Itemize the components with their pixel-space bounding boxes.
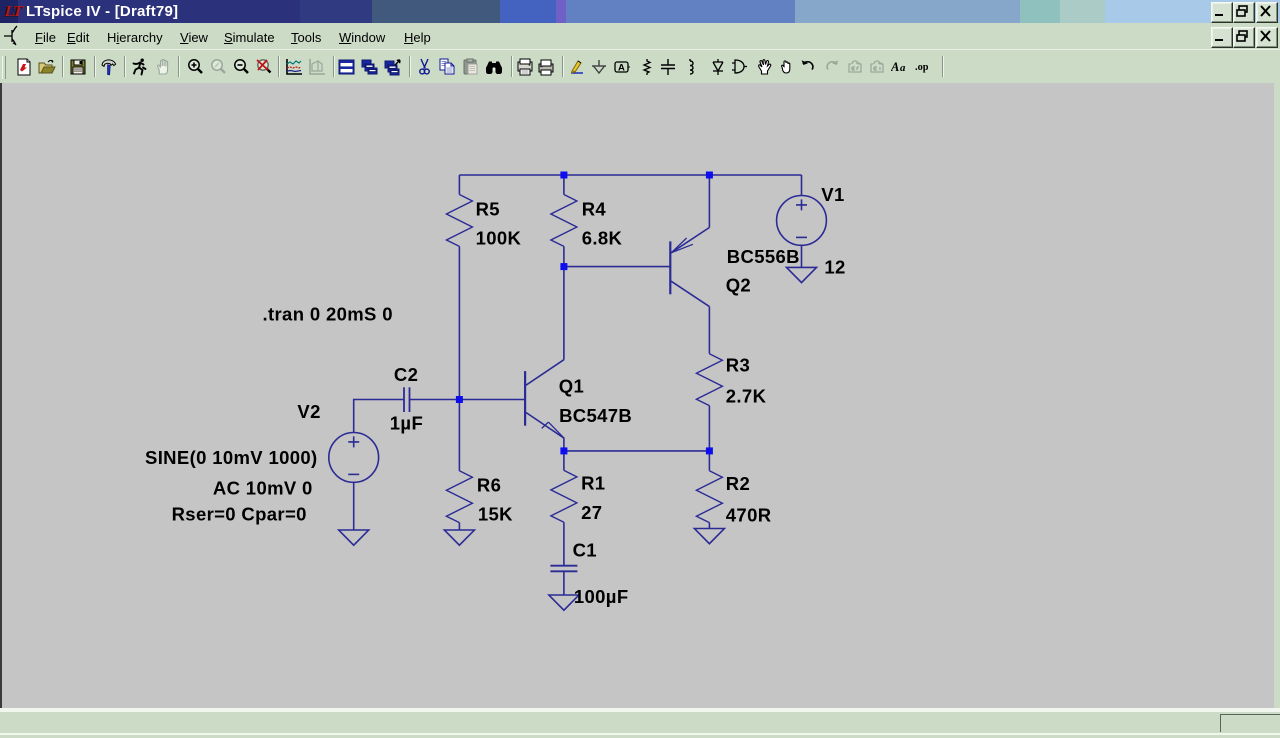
wire emitter row xyxy=(564,450,710,452)
ground below V1 xyxy=(787,267,817,282)
wire Q2 base node to Q2 base xyxy=(564,266,670,268)
svg-text:15K: 15K xyxy=(478,504,513,525)
resistor R4 xyxy=(551,195,577,247)
svg-text:.tran 0 20mS 0: .tran 0 20mS 0 xyxy=(263,304,393,325)
voltage source V2 xyxy=(329,433,379,483)
resistor R1 xyxy=(551,470,577,522)
wire V1 bottom to ground xyxy=(801,245,803,267)
resistor R3 xyxy=(696,354,722,406)
wire R2 node to R2 top xyxy=(708,451,710,471)
ground below R2 xyxy=(694,529,724,544)
wire V2 top to C2 xyxy=(354,400,404,433)
svg-text:C2: C2 xyxy=(394,364,418,385)
wire Q1 base xyxy=(459,399,524,401)
svg-text:470R: 470R xyxy=(726,505,772,526)
svg-text:6.8K: 6.8K xyxy=(582,228,623,249)
title bar xyxy=(0,0,1280,23)
wire C1 bottom to ground xyxy=(563,571,565,595)
svg-text:C1: C1 xyxy=(573,540,597,561)
svg-text:R6: R6 xyxy=(477,474,501,495)
svg-text:V1: V1 xyxy=(821,184,844,205)
svg-text:BC556B: BC556B xyxy=(727,246,800,267)
wire Q2 base node down to Q1 collector xyxy=(563,267,565,360)
resistor R2 xyxy=(696,471,722,523)
svg-text:a: a xyxy=(900,62,906,74)
node junction Q1 base xyxy=(456,396,463,403)
svg-text:SINE(0 10mV 1000): SINE(0 10mV 1000) xyxy=(145,447,318,468)
wire R3 bottom to node xyxy=(708,406,710,451)
capacitor C1 xyxy=(550,566,577,572)
wire rail to R5 top xyxy=(458,175,460,195)
svg-text:1µF: 1µF xyxy=(390,413,423,434)
svg-text:.op: .op xyxy=(915,62,929,73)
voltage source V1 xyxy=(777,196,827,246)
wire Q2 collector to R3 top xyxy=(708,307,710,354)
node junction rail-R4 xyxy=(560,172,567,179)
wire rail to V1 top xyxy=(801,175,803,196)
svg-text:A: A xyxy=(618,63,625,74)
transistor Q1 xyxy=(525,360,564,451)
svg-text:A: A xyxy=(891,60,899,74)
ground below C1 xyxy=(549,595,579,610)
ground below V2 xyxy=(339,530,369,545)
node junction rail-Q2 emitter xyxy=(706,172,713,179)
svg-text:R3: R3 xyxy=(726,355,750,376)
wire R1 bottom to C1 top xyxy=(563,522,565,565)
svg-text:27: 27 xyxy=(581,502,602,523)
ground below R6 xyxy=(444,530,474,545)
node junction Q2 base xyxy=(560,263,567,270)
svg-text:Rser=0 Cpar=0: Rser=0 Cpar=0 xyxy=(172,504,307,525)
svg-text:Q1: Q1 xyxy=(559,375,584,396)
svg-text:2.7K: 2.7K xyxy=(726,386,767,407)
svg-text:V2: V2 xyxy=(297,401,320,422)
wire R6 bottom to ground xyxy=(458,523,460,530)
svg-text:12: 12 xyxy=(824,256,845,277)
svg-text:BC547B: BC547B xyxy=(559,405,632,426)
wire top rail xyxy=(459,174,801,176)
svg-text:R2: R2 xyxy=(726,473,750,494)
wire R4 bottom to Q2 base node xyxy=(563,246,565,266)
capacitor C2 xyxy=(404,387,410,412)
wire R5 bottom to R6 top through node xyxy=(458,246,460,470)
svg-text:LT: LT xyxy=(3,3,25,20)
svg-text:100K: 100K xyxy=(476,228,522,249)
transistor Q2 xyxy=(670,228,709,307)
resistor R6 xyxy=(446,471,472,523)
svg-text:AC 10mV 0: AC 10mV 0 xyxy=(213,478,313,499)
svg-text:100µF: 100µF xyxy=(574,586,629,607)
wire C2 right to base node xyxy=(410,399,459,401)
svg-text:Q2: Q2 xyxy=(726,275,751,296)
wire Q2 emitter vertical to rail xyxy=(708,175,710,228)
wire R2 bottom to ground xyxy=(708,523,710,529)
svg-text:R4: R4 xyxy=(582,198,607,219)
resistor R5 xyxy=(446,195,472,247)
node junction Q1 emitter xyxy=(560,447,567,454)
wire rail to R4 top xyxy=(563,175,565,195)
svg-text:R1: R1 xyxy=(581,473,605,494)
wire emitter node to R1 top xyxy=(563,451,565,471)
svg-text:R5: R5 xyxy=(476,198,500,219)
node junction R3-R2 xyxy=(706,447,713,454)
wire V2 bottom to ground xyxy=(353,482,355,530)
